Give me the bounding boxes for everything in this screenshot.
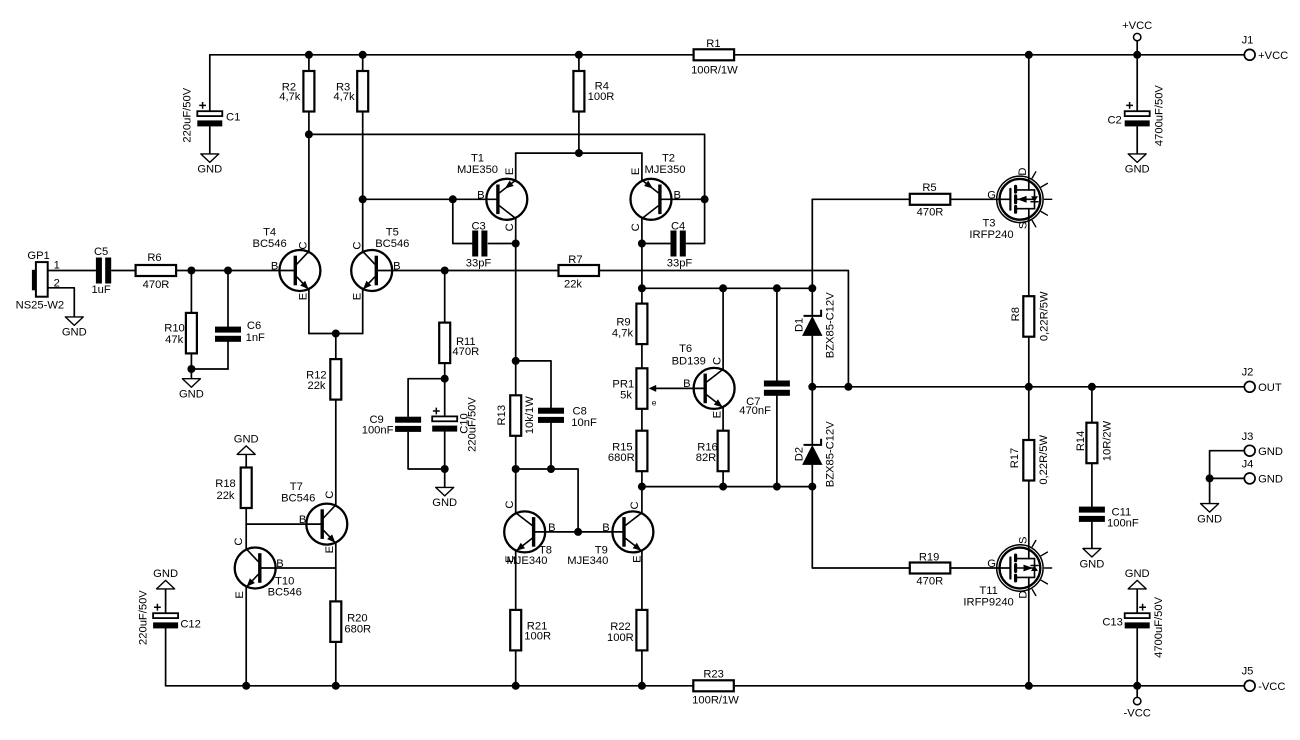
wire R10 gnd drop — [190, 369, 192, 379]
svg-text:E: E — [234, 591, 246, 598]
resistor R15 — [608, 431, 647, 472]
junction -VCC rail R20 — [332, 682, 340, 690]
junction D1 top rail — [808, 284, 816, 292]
wire T8 base — [535, 531, 578, 533]
svg-text:T7: T7 — [290, 481, 303, 493]
wire R2 bottom to T4 collector — [308, 112, 310, 253]
svg-text:C: C — [298, 242, 310, 250]
junction OUT R14 — [1088, 383, 1096, 391]
svg-text:470nF: 470nF — [739, 405, 771, 417]
junction OUT R17 — [1025, 383, 1033, 391]
svg-text:IRFP240: IRFP240 — [969, 229, 1013, 241]
junction T2 base — [701, 195, 709, 203]
capacitor C1 (220uF/50V) — [182, 87, 241, 142]
junction emitter rail R4 — [575, 149, 583, 157]
svg-text:GND: GND — [1125, 164, 1150, 176]
wire R20 bottom — [335, 642, 337, 686]
svg-text:5k: 5k — [620, 389, 632, 401]
svg-text:E: E — [504, 168, 516, 175]
svg-text:GP1: GP1 — [27, 250, 49, 262]
svg-text:10k/1W: 10k/1W — [524, 396, 536, 434]
wire C1 to +VCC rail — [209, 55, 211, 111]
wire C3 left drop — [453, 199, 473, 243]
wire T5 emitter — [362, 289, 364, 334]
junction -VCC rail T10 — [242, 682, 250, 690]
svg-text:4,7k: 4,7k — [333, 91, 355, 103]
junction R9 top — [638, 284, 646, 292]
svg-text:S: S — [1018, 222, 1030, 229]
wire T2 collector chain — [641, 219, 643, 304]
svg-text:E: E — [352, 293, 364, 300]
wire C10 bottom — [444, 432, 446, 469]
wire C3 right to T1 collector — [489, 243, 516, 245]
resistor R22 — [607, 610, 647, 651]
wire C1 bottom — [209, 126, 211, 154]
svg-text:GND: GND — [197, 164, 222, 176]
svg-text:BD139: BD139 — [672, 355, 706, 367]
svg-text:C: C — [630, 223, 642, 231]
wire C7 top — [776, 288, 778, 380]
svg-text:NS25-W2: NS25-W2 — [16, 300, 65, 312]
svg-text:C: C — [352, 242, 364, 250]
svg-text:GND: GND — [1197, 513, 1222, 525]
wire T6 emitter — [722, 408, 724, 431]
wire R11 bottom — [444, 363, 446, 379]
wire C8 bottom — [550, 423, 552, 469]
junction OUT feedback — [844, 383, 852, 391]
junction C9 C10 gnd — [441, 465, 449, 473]
ground C13 — [1125, 568, 1150, 589]
junction D2 bottom rail — [808, 483, 816, 491]
wire R5 to T3 gate — [950, 198, 1010, 200]
ground C1 — [197, 154, 222, 176]
svg-text:S: S — [1018, 537, 1030, 544]
svg-text:T11: T11 — [979, 585, 997, 597]
svg-text:B: B — [276, 558, 283, 570]
wire T10 base — [262, 567, 336, 569]
wire -VCC port stub — [1136, 686, 1138, 698]
svg-text:C: C — [629, 501, 641, 509]
wire R7 to feedback corner — [599, 271, 849, 387]
wire R21 bottom — [515, 650, 517, 685]
transistor T6 (BD139) — [672, 343, 735, 418]
svg-text:10R/2W: 10R/2W — [1101, 420, 1113, 461]
port J4 GND — [1242, 459, 1283, 486]
wire C6 bottom — [227, 342, 229, 369]
svg-text:D: D — [1017, 168, 1029, 176]
wire PR1 to R15 — [641, 409, 643, 431]
resistor R19 — [910, 551, 951, 587]
junction R11 bottom — [441, 375, 449, 383]
label T3 — [969, 168, 1029, 241]
wire T4 emitter — [308, 289, 310, 334]
svg-text:GND: GND — [1079, 558, 1104, 570]
svg-text:C: C — [504, 223, 516, 231]
svg-text:C5: C5 — [94, 246, 108, 258]
wire R7 left lead — [445, 270, 559, 272]
junction C8 bottom — [547, 465, 555, 473]
junction +VCC rail T3 drain — [1025, 51, 1033, 59]
svg-text:470R: 470R — [143, 279, 170, 291]
capacitor C8 (10nF) — [538, 405, 597, 428]
svg-text:GND: GND — [432, 497, 457, 509]
junction R13 bottom — [512, 465, 520, 473]
resistor R13 — [496, 395, 536, 436]
junction R15 bottom rail — [638, 483, 646, 491]
svg-text:22k: 22k — [216, 490, 234, 502]
svg-text:D2: D2 — [794, 447, 806, 461]
svg-text:C8: C8 — [573, 405, 587, 417]
transistor T9 (MJE340) — [567, 501, 653, 567]
junction -VCC rail T11 — [1025, 682, 1033, 690]
svg-text:10nF: 10nF — [571, 417, 597, 429]
wire R10 bottom — [190, 353, 192, 369]
svg-text:R23: R23 — [703, 669, 724, 681]
junction +VCC rail R3 — [359, 51, 367, 59]
wire PR1 wiper to T6 base — [655, 387, 704, 389]
resistor R9 — [612, 304, 647, 345]
svg-text:470R: 470R — [917, 206, 944, 218]
svg-text:OUT: OUT — [1258, 382, 1282, 394]
svg-text:E: E — [298, 293, 310, 300]
junction -VCC rail R21 — [512, 682, 520, 690]
resistor R8 — [1010, 291, 1050, 341]
wire T9 base — [578, 531, 622, 533]
wire R12 to T7 collector — [335, 400, 337, 506]
svg-text:470R: 470R — [916, 576, 943, 588]
svg-text:R1: R1 — [706, 38, 720, 50]
svg-text:100nF: 100nF — [362, 425, 394, 437]
port J3 GND — [1242, 431, 1283, 458]
resistor R1 — [691, 38, 738, 76]
svg-text:220uF/50V: 220uF/50V — [182, 87, 194, 142]
junction T2 collector C4 — [638, 240, 646, 248]
svg-text:33pF: 33pF — [667, 258, 693, 270]
svg-text:D: D — [1018, 591, 1030, 599]
wire C11 gnd drop — [1091, 522, 1093, 548]
svg-text:GND: GND — [179, 389, 204, 401]
wire D2 bottom — [811, 465, 813, 487]
svg-text:T1: T1 — [471, 153, 484, 165]
wire C9 bottom — [408, 432, 445, 469]
wire -VCC rail left — [166, 685, 694, 687]
svg-text:C: C — [233, 538, 245, 546]
wire T5 base line — [378, 270, 445, 272]
resistor R23 — [692, 669, 739, 707]
wire T11 drain — [1028, 577, 1030, 685]
resistor R2 — [279, 71, 314, 112]
svg-text:C: C — [711, 357, 723, 365]
wire node to T8 T9 bases — [516, 469, 578, 532]
wire C6 top — [227, 271, 229, 327]
wire C12 top — [165, 589, 167, 613]
wire R16 bottom — [722, 471, 724, 486]
svg-text:G: G — [987, 558, 996, 570]
ground J3 J4 — [1197, 504, 1222, 526]
svg-text:R5: R5 — [922, 182, 936, 194]
capacitor C7 (470nF) — [739, 381, 790, 418]
svg-text:100R/1W: 100R/1W — [691, 65, 738, 77]
ground C11 — [1079, 549, 1104, 571]
resistor R7 — [559, 254, 600, 291]
svg-text:100R: 100R — [607, 632, 634, 644]
junction +VCC rail C2 — [1133, 51, 1141, 59]
ground C2 — [1125, 154, 1150, 176]
svg-text:C13: C13 — [1102, 617, 1123, 629]
junction T6 collector rail — [719, 284, 727, 292]
wire C4 left to T2 collector — [642, 243, 670, 245]
svg-text:GND: GND — [234, 434, 259, 446]
junction input R10 — [187, 267, 195, 275]
resistor R20 — [330, 601, 371, 642]
svg-text:R18: R18 — [215, 478, 236, 490]
wire R13 top to C8 — [516, 361, 551, 408]
svg-text:B: B — [271, 261, 278, 273]
svg-text:J4: J4 — [1242, 459, 1254, 471]
junction R2 bottom rail — [305, 130, 313, 138]
svg-text:0,22R/5W: 0,22R/5W — [1039, 291, 1051, 341]
capacitor C6 (1nF) — [215, 320, 265, 344]
port J1 +VCC — [1242, 35, 1289, 62]
svg-text:E: E — [630, 168, 642, 175]
capacitor C10 (220uF/50V) — [432, 397, 478, 452]
svg-text:IRFP9240: IRFP9240 — [963, 597, 1013, 609]
resistor R5 — [910, 182, 951, 218]
svg-text:2: 2 — [54, 277, 60, 289]
diode D2 (BZX85-C12V) — [794, 421, 837, 487]
svg-text:C6: C6 — [247, 320, 261, 332]
junction T5 collector node — [359, 195, 367, 203]
wire R8 bottom — [1028, 337, 1030, 387]
svg-text:R7: R7 — [568, 254, 582, 266]
svg-text:J2: J2 — [1242, 367, 1254, 379]
wire T6 collector — [722, 288, 724, 369]
svg-text:B: B — [393, 261, 400, 273]
svg-text:R6: R6 — [147, 252, 161, 264]
svg-text:GND: GND — [1258, 474, 1283, 486]
capacitor C13 (4700uF/50V) — [1102, 596, 1165, 657]
capacitor C9 (100nF) — [362, 414, 421, 436]
svg-text:C: C — [324, 491, 336, 499]
svg-text:4,7k: 4,7k — [612, 328, 634, 340]
junction emitter join — [332, 330, 340, 338]
svg-text:C3: C3 — [471, 221, 485, 233]
wire C13 top — [1136, 589, 1138, 613]
wire R19 to T11 gate — [950, 567, 1010, 569]
capacitor C2 (4700uF/50V) — [1107, 85, 1165, 146]
svg-text:1uF: 1uF — [91, 284, 110, 296]
svg-text:J1: J1 — [1242, 35, 1254, 47]
wire R3 top lead — [362, 55, 364, 71]
svg-text:100R: 100R — [524, 631, 551, 643]
wire J4 link — [1210, 477, 1245, 479]
connector GP1 (NS25-W2) — [16, 250, 65, 312]
svg-text:E: E — [632, 555, 644, 562]
junction +VCC rail R4 — [575, 51, 583, 59]
ground C12 — [153, 568, 178, 589]
svg-text:680R: 680R — [608, 452, 635, 464]
svg-text:E: E — [711, 411, 723, 418]
power +VCC — [1122, 20, 1152, 41]
svg-text:T5: T5 — [386, 227, 399, 239]
wire R2 top lead — [308, 55, 310, 71]
wire C2 bottom — [1136, 126, 1138, 154]
wire R12 top lead — [335, 334, 337, 360]
svg-text:BZX85-C12V: BZX85-C12V — [824, 292, 836, 358]
svg-text:GND: GND — [62, 327, 87, 339]
wire R3 bottom to T5 collector — [362, 112, 364, 253]
svg-text:R8: R8 — [1010, 307, 1022, 321]
wire T3 drain — [1028, 55, 1030, 190]
resistor R10 — [164, 313, 197, 354]
svg-text:82R: 82R — [696, 452, 717, 464]
svg-text:33pF: 33pF — [466, 258, 492, 270]
wire T3 source to R8 — [1028, 209, 1030, 297]
wire GP1 pin2 to gnd — [48, 288, 75, 317]
junction T8 T9 base — [574, 528, 582, 536]
svg-text:T4: T4 — [263, 227, 276, 239]
svg-text:T3: T3 — [982, 218, 995, 230]
svg-text:100R: 100R — [588, 91, 615, 103]
wire R14 to C11 — [1091, 463, 1093, 506]
svg-text:+VCC: +VCC — [1258, 50, 1288, 62]
svg-text:C4: C4 — [671, 221, 685, 233]
wire T9 collector — [641, 487, 643, 513]
svg-text:R19: R19 — [919, 551, 940, 563]
junction OUT D2 — [808, 383, 816, 391]
port J5 -VCC — [1242, 665, 1286, 693]
svg-text:C1: C1 — [226, 112, 240, 124]
svg-text:4,7k: 4,7k — [279, 91, 301, 103]
wire D1 to D2 — [811, 336, 813, 445]
resistor R12 — [306, 359, 341, 400]
wire +VCC port stub — [1136, 41, 1138, 55]
ground R10 C6 — [179, 379, 204, 401]
wire -VCC rail right — [734, 685, 1245, 687]
svg-text:4700uF/50V: 4700uF/50V — [1153, 85, 1165, 146]
transistor T2 (MJE350) — [630, 153, 686, 232]
transistor T10 (BC546) — [233, 538, 302, 599]
wire C13 bottom — [1136, 628, 1138, 686]
junction -VCC rail R22 — [638, 682, 646, 690]
wire T9 emitter — [641, 551, 643, 610]
svg-text:GND: GND — [1125, 568, 1150, 580]
wire J3 link — [1210, 451, 1245, 479]
wire bias rail top — [642, 287, 812, 289]
wire node A rail R2-T2base — [309, 134, 705, 243]
svg-text:4700uF/50V: 4700uF/50V — [1153, 596, 1165, 657]
svg-text:T6: T6 — [679, 343, 692, 355]
diode D1 (BZX85-C12V) — [794, 292, 837, 358]
wire C2 top — [1136, 55, 1138, 111]
wire T1 base line — [363, 198, 497, 200]
transistor T3 (IRFP240) — [997, 172, 1052, 227]
ground R18 — [234, 434, 259, 455]
svg-text:C2: C2 — [1107, 115, 1121, 127]
capacitor C4 (33pF) — [667, 221, 693, 270]
transistor T4 (BC546) — [252, 227, 320, 301]
wire T2 emitter — [641, 153, 643, 180]
wire OUT line — [812, 386, 1244, 388]
ground GP1 pin2 — [62, 317, 87, 339]
port J2 OUT — [1242, 367, 1282, 394]
svg-text:T10: T10 — [275, 575, 294, 587]
svg-text:+VCC: +VCC — [1122, 20, 1152, 32]
svg-text:0,22R/5W: 0,22R/5W — [1038, 434, 1050, 484]
svg-text:E: E — [324, 546, 336, 553]
capacitor C5 (1uF) — [91, 246, 111, 296]
wire R10-C6 gnd link — [191, 368, 228, 370]
wire T1 emitter — [515, 153, 517, 180]
wire C9C10 gnd drop — [444, 469, 446, 487]
junction C7 bottom rail — [773, 483, 781, 491]
svg-text:100nF: 100nF — [1107, 518, 1139, 530]
wire input pin1 — [48, 270, 96, 272]
capacitor C11 (100nF) — [1079, 507, 1139, 530]
svg-text:BC546: BC546 — [252, 238, 286, 250]
capacitor C12 (220uF/50V) — [138, 590, 201, 645]
wire R15 bottom — [641, 471, 643, 486]
wire C10 top — [444, 379, 446, 418]
wire R4 bottom lead — [578, 112, 580, 154]
resistor R3 — [333, 71, 368, 112]
svg-text:C12: C12 — [180, 619, 201, 631]
wire C12 bottom — [165, 628, 167, 686]
svg-text:B: B — [602, 522, 609, 534]
svg-text:MJE350: MJE350 — [457, 164, 498, 176]
svg-text:BC546: BC546 — [281, 493, 315, 505]
wire R10 top — [190, 271, 192, 313]
wire emitter join T4-T5 — [309, 333, 363, 335]
ground C9 C10 — [432, 487, 457, 509]
svg-text:J5: J5 — [1242, 665, 1254, 677]
transistor T1 (MJE350) — [457, 153, 527, 232]
transistor T11 (IRFP9240) — [997, 541, 1052, 596]
wire bias to T11 gate — [812, 487, 910, 568]
trimmer PR1 (5k) — [612, 368, 656, 409]
resistor R11 — [439, 323, 479, 364]
junction R16 bottom rail — [719, 483, 727, 491]
svg-text:1: 1 — [54, 260, 60, 272]
svg-text:100R/1W: 100R/1W — [692, 694, 739, 706]
wire R20 top — [335, 568, 337, 601]
wire R22 bottom — [641, 650, 643, 685]
svg-text:B: B — [548, 522, 555, 534]
svg-text:J3: J3 — [1242, 431, 1254, 443]
svg-text:22k: 22k — [307, 380, 325, 392]
junction input C6 — [224, 267, 232, 275]
wire R11 top — [444, 271, 446, 323]
svg-text:680R: 680R — [344, 623, 371, 635]
wire bias rail bottom — [642, 486, 812, 488]
wire R9 bottom to PR1 — [641, 344, 643, 368]
svg-text:G: G — [987, 189, 996, 201]
wire R5 left — [812, 198, 910, 200]
resistor R17 — [1009, 434, 1050, 484]
svg-text:MJE340: MJE340 — [567, 555, 608, 567]
svg-text:MJE350: MJE350 — [644, 164, 685, 176]
resistor R16 — [696, 431, 729, 472]
svg-text:D1: D1 — [794, 318, 806, 332]
wire T10 emitter — [245, 587, 247, 686]
svg-text:E: E — [504, 555, 516, 562]
wire R6 to T4 base — [176, 270, 294, 272]
svg-text:220uF/50V: 220uF/50V — [466, 397, 478, 452]
resistor R14 — [1075, 420, 1113, 463]
junction R10 gnd — [187, 365, 195, 373]
resistor R18 — [215, 468, 251, 509]
junction T1 base C3 — [449, 195, 457, 203]
